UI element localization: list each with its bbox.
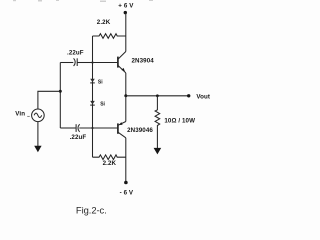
resistor RL 10 ohm / 10W (load) bbox=[155, 96, 160, 149]
wire: diode string vertical (node A to node B to R2) bbox=[92, 63, 94, 158]
svg-text:2.2K: 2.2K bbox=[103, 160, 117, 167]
diode D1 Si bbox=[90, 79, 95, 83]
capacitor C1 .22uF (top coupling) bbox=[74, 58, 76, 66]
svg-text:.22uF: .22uF bbox=[70, 134, 87, 141]
svg-text:Fig.2-c.: Fig.2-c. bbox=[76, 205, 107, 216]
svg-text:2.2K: 2.2K bbox=[97, 19, 111, 26]
wire: left rail corner to cap C2 bbox=[60, 127, 75, 129]
resistor R1 2.2K (top bias) bbox=[93, 34, 126, 39]
source Vin (AC) bbox=[32, 109, 45, 122]
ground arrow (source return) bbox=[34, 146, 41, 152]
wire: bottom horizontal (cap C2 to node B to Q2 base) bbox=[79, 127, 117, 129]
svg-text:Vin: Vin bbox=[15, 111, 25, 118]
svg-text:∼: ∼ bbox=[27, 113, 31, 118]
left rail wire (joins C1 and C2 left plates) bbox=[59, 63, 61, 129]
output node junction dot bbox=[124, 94, 127, 97]
wire: Q1 emitter down to output node bbox=[125, 73, 127, 96]
wire: output horizontal to Vout bbox=[126, 95, 189, 97]
svg-text:2N3904: 2N3904 bbox=[132, 57, 155, 64]
-6V terminal dot bbox=[124, 181, 128, 185]
Vout terminal dot bbox=[187, 94, 190, 97]
+6V terminal dot bbox=[124, 11, 127, 14]
svg-text:Si: Si bbox=[98, 80, 103, 86]
svg-text:10Ω / 10W: 10Ω / 10W bbox=[164, 118, 195, 125]
resistor R2 2.2K (bottom bias) bbox=[93, 155, 126, 160]
transistor Q2 2N39046 (PNP) bbox=[125, 96, 127, 122]
wire: top horizontal (node A to NPN base) bbox=[93, 62, 118, 64]
svg-text:Vout: Vout bbox=[196, 94, 210, 101]
input node junction dot bbox=[59, 90, 62, 93]
svg-text:.22uF: .22uF bbox=[67, 50, 84, 57]
capacitor C2 .22uF (bottom coupling) bbox=[75, 124, 77, 132]
diode D2 Si bbox=[90, 101, 95, 105]
wire: top horizontal (cap C1 right plate to node A) bbox=[77, 62, 92, 64]
svg-text:Si: Si bbox=[100, 102, 105, 108]
junction dot at load resistor top bbox=[156, 94, 159, 97]
wire: Q2 collector down to -6V bbox=[125, 138, 127, 182]
wire: Vin bottom to ground arrow bbox=[37, 122, 39, 147]
svg-text:- 6 V: - 6 V bbox=[120, 190, 134, 197]
svg-text:+ 6 V: + 6 V bbox=[118, 3, 134, 10]
wire: +6V rail down to NPN collector bbox=[125, 14, 127, 52]
wire: left rail corner to cap C1 bbox=[60, 62, 73, 64]
ground arrow (load return) bbox=[154, 148, 162, 155]
node B junction dot bbox=[91, 127, 93, 129]
svg-text:2N39046: 2N39046 bbox=[127, 127, 153, 134]
cut-off text descenders at top edge bbox=[13, 0, 153, 2]
transistor Q1 2N3904 (NPN) bbox=[117, 57, 119, 68]
wire: Vin to input node bbox=[38, 91, 60, 109]
wire: R1 left lead down to node A bbox=[92, 36, 94, 63]
node A junction dot bbox=[91, 61, 93, 63]
